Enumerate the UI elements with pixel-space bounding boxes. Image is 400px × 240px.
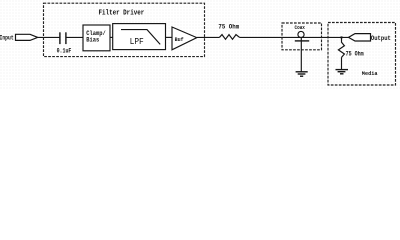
svg-text:75 Ohm: 75 Ohm	[346, 50, 364, 57]
capacitor C1 0.1uF	[60, 32, 66, 44]
coax connector symbol: circle	[298, 31, 304, 37]
dashed box Media	[328, 23, 396, 86]
resistor R2 75 Ohm (termination)	[338, 42, 344, 57]
dashed box Filter Driver	[44, 3, 205, 56]
wire input to capacitor	[38, 36, 60, 38]
wire buffer to resistor	[197, 36, 220, 38]
svg-text:Bias: Bias	[86, 37, 99, 44]
background halftone	[0, 0, 400, 90]
LPF response curve	[121, 30, 160, 45]
svg-text:Media: Media	[362, 70, 378, 77]
svg-text:Filter Driver: Filter Driver	[99, 10, 145, 18]
node junction	[341, 36, 343, 38]
svg-text:0.1uF: 0.1uF	[57, 47, 72, 54]
wire capacitor to clamp box	[67, 36, 84, 38]
block LPF U1	[113, 24, 166, 50]
svg-text:Input: Input	[0, 34, 14, 41]
output connector J2	[349, 34, 371, 41]
input connector J1	[16, 34, 38, 40]
svg-text:Coax: Coax	[295, 24, 306, 31]
ground (coax shield)	[296, 72, 308, 76]
coax shield bar	[295, 40, 309, 42]
svg-text:Buf: Buf	[175, 36, 184, 43]
block Clamp/Bias	[83, 25, 110, 51]
wire clamp to LPF	[110, 36, 113, 38]
wire resistor to output tip	[240, 36, 349, 38]
svg-text:75 Ohm: 75 Ohm	[218, 24, 239, 31]
wire junction down to resistor	[341, 37, 343, 42]
svg-text:LPF: LPF	[130, 37, 144, 47]
wire coax shield to ground	[300, 38, 302, 72]
wire resistor to ground	[341, 57, 343, 69]
wire LPF to buffer	[166, 36, 173, 38]
buffer amp Buf	[172, 27, 197, 50]
ground (termination)	[336, 70, 349, 74]
svg-text:Output: Output	[371, 35, 391, 42]
dashed box Coax	[282, 23, 322, 50]
resistor R1 75 Ohm (series)	[220, 35, 240, 40]
